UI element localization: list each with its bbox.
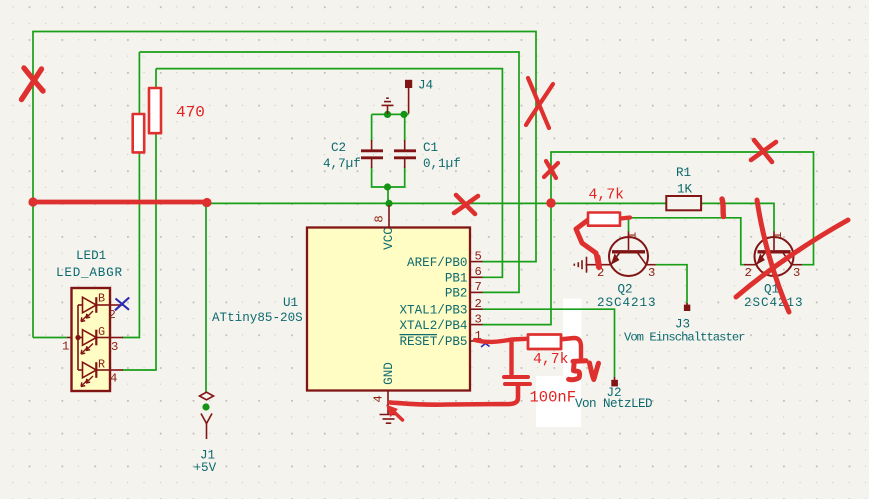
svg-text:1: 1 <box>771 232 785 239</box>
svg-text:1: 1 <box>62 340 69 354</box>
svg-text:LED_ABGR: LED_ABGR <box>56 266 122 280</box>
svg-text:4: 4 <box>372 395 386 402</box>
svg-text:1: 1 <box>626 232 640 239</box>
svg-text:PB2: PB2 <box>445 287 468 301</box>
svg-text:PB1: PB1 <box>445 272 468 286</box>
svg-text:3: 3 <box>648 266 655 280</box>
svg-text:J4: J4 <box>418 79 433 93</box>
svg-text:2: 2 <box>109 308 116 322</box>
svg-text:8: 8 <box>373 215 387 222</box>
svg-text:AREF/PB0: AREF/PB0 <box>407 256 467 270</box>
svg-text:4,7k: 4,7k <box>533 352 569 368</box>
svg-text:+5V: +5V <box>194 461 217 475</box>
svg-text:3: 3 <box>111 340 118 354</box>
svg-text:5: 5 <box>475 250 482 264</box>
svg-text:VCC: VCC <box>382 227 396 250</box>
svg-text:2: 2 <box>475 297 482 311</box>
svg-text:2SC4213: 2SC4213 <box>597 296 656 310</box>
svg-text:C2: C2 <box>331 141 346 155</box>
svg-text:3: 3 <box>793 266 800 280</box>
svg-text:B: B <box>98 291 105 305</box>
svg-text:U1: U1 <box>283 296 298 310</box>
svg-text:4: 4 <box>110 372 117 386</box>
svg-text:XTAL1/PB3: XTAL1/PB3 <box>399 303 467 317</box>
svg-text:LED1: LED1 <box>76 249 106 263</box>
svg-text:RESET/PB5: RESET/PB5 <box>399 335 467 349</box>
svg-text:3: 3 <box>475 313 482 327</box>
svg-text:470: 470 <box>176 104 205 122</box>
svg-text:XTAL2/PB4: XTAL2/PB4 <box>399 319 467 333</box>
svg-text:0,1µf: 0,1µf <box>423 157 461 171</box>
svg-text:R: R <box>98 357 105 371</box>
svg-text:Vom Einschalttaster: Vom Einschalttaster <box>624 330 746 344</box>
svg-text:1K: 1K <box>677 183 693 197</box>
svg-text:Von NetzLED: Von NetzLED <box>575 397 653 411</box>
svg-text:6: 6 <box>475 265 482 279</box>
svg-text:ATtiny85-20S: ATtiny85-20S <box>212 311 303 325</box>
svg-text:Q2: Q2 <box>618 283 633 297</box>
svg-text:100nF: 100nF <box>530 389 577 407</box>
svg-text:7: 7 <box>475 280 482 294</box>
svg-text:2: 2 <box>745 266 752 280</box>
svg-text:2SC4213: 2SC4213 <box>744 296 803 310</box>
svg-text:G: G <box>98 325 105 339</box>
svg-text:4,7k: 4,7k <box>589 188 625 204</box>
svg-text:R1: R1 <box>676 166 691 180</box>
svg-text:GND: GND <box>382 362 396 385</box>
svg-text:4,7µf: 4,7µf <box>323 157 361 171</box>
svg-text:C1: C1 <box>423 141 438 155</box>
